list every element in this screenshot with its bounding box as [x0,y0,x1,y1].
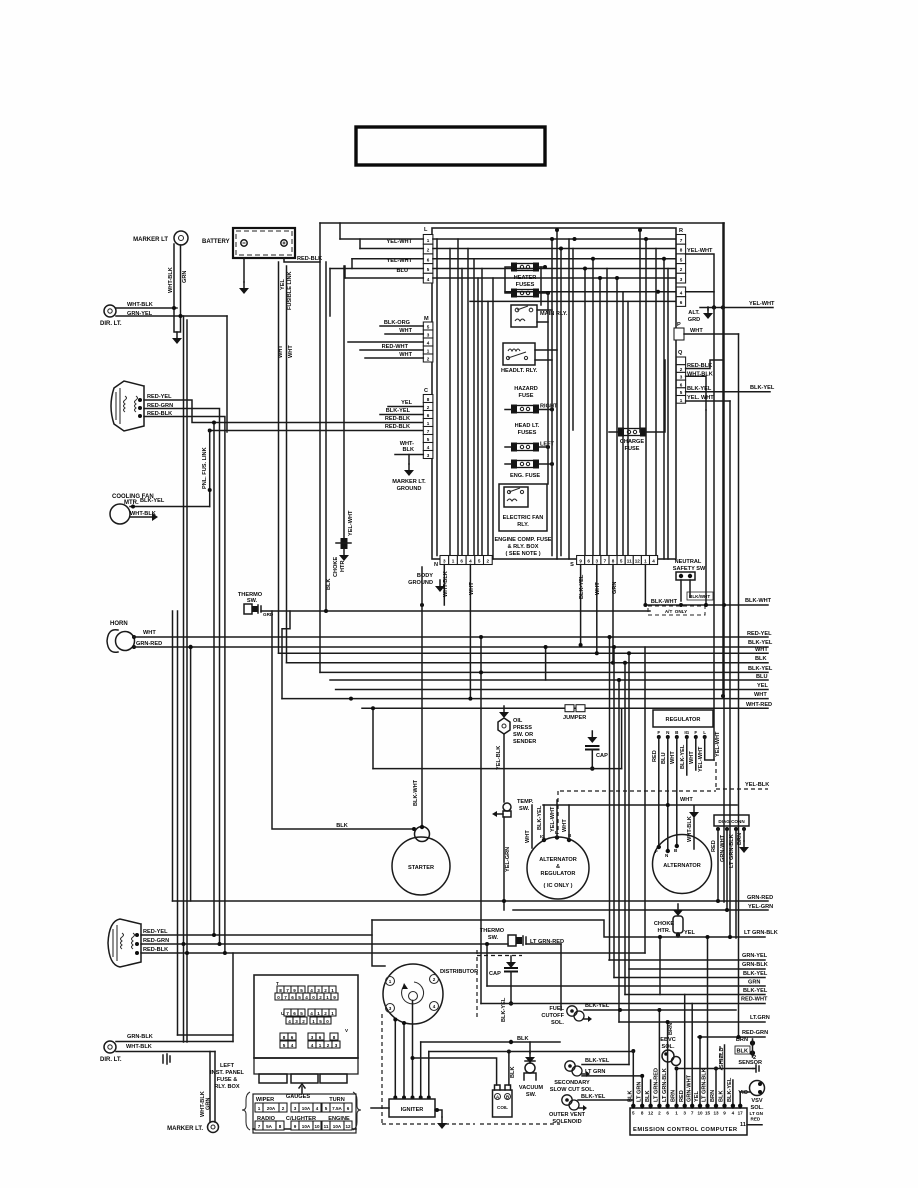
svg-text:( SEE NOTE ): ( SEE NOTE ) [505,551,540,557]
svg-text:BLK: BLK [645,1091,651,1103]
svg-text:YEL: YEL [757,683,768,689]
svg-text:13: 13 [713,1111,719,1116]
svg-text:SW.: SW. [247,598,258,604]
svg-text:20A: 20A [267,1106,276,1111]
svg-text:1: 1 [326,995,329,1000]
svg-text:BLU: BLU [661,753,667,765]
svg-text:& RLY. BOX: & RLY. BOX [508,544,539,550]
svg-text:WHT: WHT [469,582,475,595]
svg-text:11: 11 [740,1122,746,1128]
svg-text:2: 2 [302,1019,305,1024]
svg-text:5: 5 [300,1011,303,1016]
svg-text:GRN: GRN [206,1098,212,1110]
svg-text:YEL-BLK: YEL-BLK [496,746,502,770]
svg-text:RLY. BOX: RLY. BOX [214,1084,240,1090]
svg-text:WHT-BLK: WHT-BLK [127,302,153,308]
svg-text:BLK-YEL: BLK-YEL [748,666,773,672]
svg-text:2: 2 [680,267,683,272]
svg-text:2: 2 [324,988,327,993]
svg-text:WHT: WHT [399,328,412,334]
svg-text:7: 7 [286,1011,289,1016]
svg-text:GRN-RED: GRN-RED [747,895,773,901]
svg-text:BLK/WHT: BLK/WHT [689,594,710,599]
svg-text:4: 4 [310,988,313,993]
svg-text:5: 5 [319,1019,322,1024]
svg-text:1: 1 [427,238,430,243]
svg-text:8: 8 [641,1111,644,1116]
svg-text:BLK-ORG: BLK-ORG [384,320,410,326]
svg-text:P: P [677,322,681,328]
svg-text:3: 3 [311,1035,314,1040]
svg-text:WHT: WHT [670,751,676,764]
svg-text:YEL-WHT: YEL-WHT [698,746,704,772]
svg-text:12: 12 [648,1111,654,1116]
svg-text:A/T ONLY: A/T ONLY [665,609,687,614]
svg-text:NEUTRAL: NEUTRAL [675,559,702,565]
svg-text:8: 8 [279,1124,282,1129]
svg-text:3: 3 [295,1019,298,1024]
svg-text:WHT-BLK: WHT-BLK [126,1044,152,1050]
svg-text:FUSE: FUSE [625,446,640,452]
svg-text:9: 9 [294,1124,297,1129]
svg-text:VACUUM: VACUUM [519,1085,543,1091]
svg-text:YEL-WHT: YEL-WHT [550,806,556,832]
svg-text:1: 1 [644,559,647,564]
svg-text:YEL-WHT: YEL-WHT [348,510,354,536]
svg-text:GROUND: GROUND [397,486,422,492]
svg-text:1: 1 [427,421,430,426]
svg-text:WHT: WHT [562,819,568,832]
svg-text:12: 12 [345,1124,351,1129]
svg-text:6: 6 [666,1111,669,1116]
svg-text:ENG. FUSE: ENG. FUSE [510,473,540,479]
svg-text:RED-BLK: RED-BLK [143,947,168,953]
svg-text:PNL. FUS. LINK: PNL. FUS. LINK [202,447,208,489]
svg-text:GRN-YEL: GRN-YEL [127,311,153,317]
svg-text:1: 1 [389,979,392,984]
svg-text:WHT: WHT [689,751,695,764]
svg-text:SOL.: SOL. [551,1020,564,1026]
svg-text:RED-YEL: RED-YEL [143,929,168,935]
svg-text:BLK: BLK [336,823,348,829]
svg-text:8: 8 [680,248,683,253]
svg-text:LT GRN-BLK: LT GRN-BLK [744,930,778,936]
svg-text:3: 3 [389,1006,392,1011]
svg-text:2: 2 [427,357,430,362]
svg-text:5: 5 [680,390,683,395]
svg-text:2: 2 [324,1011,327,1016]
svg-text:6: 6 [460,559,463,564]
svg-text:HAZARD: HAZARD [514,386,538,392]
svg-text:BLK-YEL: BLK-YEL [727,1077,733,1102]
svg-text:5: 5 [478,559,481,564]
svg-text:2: 2 [680,367,683,372]
svg-text:S: S [570,562,574,568]
svg-text:BLK-YEL: BLK-YEL [680,744,686,769]
svg-text:YEL-WHT: YEL-WHT [387,239,413,245]
svg-text:FUSES: FUSES [516,282,535,288]
svg-text:SW.: SW. [526,1092,537,1098]
svg-text:( IC ONLY ): ( IC ONLY ) [544,883,573,889]
svg-text:WHT-BLK: WHT-BLK [687,816,693,842]
svg-text:WHT-BLK: WHT-BLK [168,267,174,293]
svg-text:3: 3 [443,559,446,564]
svg-text:8: 8 [427,397,430,402]
svg-text:Q: Q [678,350,683,356]
svg-text:3: 3 [335,1043,338,1048]
svg-text:LT GRN-RED: LT GRN-RED [654,1068,660,1102]
svg-text:WHT: WHT [690,328,703,334]
svg-text:SW. OR: SW. OR [513,732,533,738]
svg-text:4: 4 [311,1043,314,1048]
svg-text:7: 7 [284,995,287,1000]
svg-text:WHT: WHT [525,830,531,843]
svg-text:GRN-YEL: GRN-YEL [742,953,768,959]
svg-text:BRN: BRN [710,1090,716,1102]
svg-text:MTR.: MTR. [124,500,139,506]
svg-text:YEL-GRN: YEL-GRN [505,847,511,872]
svg-text:GRN-BLK: GRN-BLK [127,1034,153,1040]
svg-text:10A: 10A [302,1106,311,1111]
svg-text:7: 7 [691,1111,694,1116]
svg-text:LT GRN-BLK: LT GRN-BLK [729,834,735,868]
svg-text:3: 3 [294,1106,297,1111]
svg-text:FUEL: FUEL [549,1006,564,1012]
svg-text:10A: 10A [302,1124,311,1129]
svg-text:JUMPER: JUMPER [563,715,586,721]
svg-text:GRN-WHT: GRN-WHT [686,1074,692,1102]
svg-text:ELECTRIC FAN: ELECTRIC FAN [503,515,544,521]
svg-text:6: 6 [291,1035,294,1040]
svg-text:3: 3 [427,453,430,458]
svg-text:BLK-YEL: BLK-YEL [743,988,768,994]
svg-text:MARKER LT.: MARKER LT. [392,479,426,485]
svg-text:RED: RED [751,1117,761,1122]
svg-text:LT GRN: LT GRN [585,1069,605,1075]
svg-text:LT GRN-BLK: LT GRN-BLK [702,1068,708,1102]
svg-text:F: F [657,730,660,735]
svg-text:10: 10 [314,1124,320,1129]
svg-text:6: 6 [427,257,430,262]
svg-text:3: 3 [680,375,683,380]
svg-text:DIAG CONN: DIAG CONN [718,819,745,824]
svg-text:5: 5 [632,1111,635,1116]
svg-text:ENGINE COMP. FUSE: ENGINE COMP. FUSE [494,537,551,543]
svg-text:VSV: VSV [751,1098,762,1104]
svg-text:6: 6 [680,382,683,387]
svg-text:RED: RED [652,750,658,762]
svg-text:11: 11 [324,1124,329,1129]
svg-text:FUSE &: FUSE & [217,1077,238,1083]
svg-text:6: 6 [319,1035,322,1040]
svg-text:YEL: YEL [401,400,412,406]
svg-text:15: 15 [705,1111,711,1116]
svg-text:2: 2 [427,248,430,253]
svg-text:9: 9 [579,559,582,564]
svg-text:5: 5 [427,437,430,442]
svg-text:SENSOR: SENSOR [738,1060,762,1066]
svg-text:DISTRIBUTOR: DISTRIBUTOR [440,969,478,975]
svg-text:BLK-WHT: BLK-WHT [651,599,678,605]
svg-text:6: 6 [427,413,430,418]
svg-text:RED: RED [711,840,717,852]
svg-text:BRN: BRN [668,1023,674,1035]
svg-text:SAFETY SW: SAFETY SW [673,566,706,572]
svg-text:F: F [655,849,658,854]
svg-text:RLY.: RLY. [517,522,529,528]
svg-text:L: L [703,730,706,735]
svg-text:BLK-YEL: BLK-YEL [140,498,165,504]
svg-text:WHT-BLK: WHT-BLK [130,511,156,517]
svg-text:HEATER: HEATER [514,275,537,281]
svg-text:10A: 10A [333,1124,342,1129]
svg-text:2: 2 [327,1043,330,1048]
svg-text:3: 3 [683,1111,686,1116]
svg-text:BLK-YEL: BLK-YEL [750,385,775,391]
svg-text:RED: RED [679,1090,685,1102]
svg-text:DIR. LT.: DIR. LT. [100,1057,122,1063]
svg-text:0: 0 [277,995,280,1000]
svg-text:WHT: WHT [595,582,601,595]
svg-text:1: 1 [317,1011,320,1016]
svg-text:8: 8 [612,559,615,564]
svg-text:THERMO: THERMO [480,928,505,934]
svg-text:SW.: SW. [488,935,499,941]
svg-text:RIGHT: RIGHT [540,404,558,410]
svg-text:BLK-YEL: BLK-YEL [748,640,773,646]
svg-text:9: 9 [293,988,296,993]
svg-text:IG: IG [684,730,689,735]
svg-text:GAUGES: GAUGES [286,1094,311,1100]
svg-text:11: 11 [627,559,632,564]
svg-text:2: 2 [319,995,322,1000]
svg-text:RED-BLK: RED-BLK [297,256,322,262]
svg-text:1: 1 [680,398,683,403]
svg-text:BLK-WHT: BLK-WHT [413,779,419,806]
svg-text:GROUND: GROUND [408,580,433,586]
svg-text:12: 12 [635,559,641,564]
svg-text:8: 8 [283,1035,286,1040]
svg-text:GRN: GRN [182,271,188,283]
svg-text:BLK-YEL: BLK-YEL [501,997,507,1022]
svg-text:SENDER: SENDER [513,739,536,745]
svg-text:4: 4 [305,995,308,1000]
svg-text:6: 6 [291,995,294,1000]
svg-text:BLK: BLK [326,579,332,591]
svg-text:MARKER LT.: MARKER LT. [167,1126,203,1132]
svg-text:BLK: BLK [755,656,767,662]
svg-text:HORN: HORN [110,621,128,627]
svg-text:MAIN RLY.: MAIN RLY. [540,311,568,317]
svg-text:GRN-BLK: GRN-BLK [742,962,768,968]
svg-text:5: 5 [427,267,430,272]
svg-text:RED-BLK: RED-BLK [385,424,410,430]
svg-text:BATTERY: BATTERY [202,239,230,245]
svg-text:BLU: BLU [397,268,409,274]
svg-text:5: 5 [325,1106,328,1111]
svg-text:&: & [556,864,560,870]
svg-text:17: 17 [738,1111,744,1116]
svg-text:5: 5 [427,325,430,330]
svg-text:3: 3 [596,559,599,564]
svg-text:7: 7 [680,238,683,243]
svg-text:SOLENOID: SOLENOID [552,1119,581,1125]
svg-text:WHT-RED: WHT-RED [746,702,772,708]
svg-text:8: 8 [279,988,282,993]
svg-text:LT.GRN: LT.GRN [750,1015,770,1021]
svg-text:7: 7 [427,429,430,434]
svg-text:M: M [424,316,429,322]
svg-text:5: 5 [680,257,683,262]
svg-text:WHT: WHT [143,630,156,636]
svg-text:BRN: BRN [671,1090,677,1102]
svg-text:1: 1 [319,1043,322,1048]
svg-text:RED-WHT: RED-WHT [382,344,409,350]
svg-text:WHT-BLK: WHT-BLK [443,571,449,597]
svg-text:WIPER: WIPER [256,1097,274,1103]
svg-text:6: 6 [680,300,683,305]
svg-text:4: 4 [288,1019,291,1024]
svg-text:BLK-YEL: BLK-YEL [581,1094,606,1100]
svg-text:10: 10 [697,1111,703,1116]
svg-text:2: 2 [487,559,490,564]
svg-text:LT GN: LT GN [750,1111,764,1116]
svg-text:4: 4 [732,1111,735,1116]
svg-text:RED-WHT: RED-WHT [741,997,768,1003]
svg-text:BRN: BRN [736,1037,748,1043]
svg-text:R: R [679,228,683,234]
svg-text:BLK-YEL: BLK-YEL [579,574,585,599]
svg-text:BLK-YEL: BLK-YEL [386,408,411,414]
svg-text:2: 2 [658,1111,661,1116]
svg-text:OUTER VENT: OUTER VENT [549,1112,586,1118]
svg-text:GRN-RED: GRN-RED [136,641,162,647]
svg-text:YEL-WHT: YEL-WHT [749,301,775,307]
svg-text:0: 0 [312,995,315,1000]
svg-text:STARTER: STARTER [408,865,434,871]
svg-text:HEAD LT.: HEAD LT. [515,423,540,429]
svg-text:RED-YEL: RED-YEL [747,631,772,637]
svg-text:4: 4 [433,1004,436,1009]
svg-text:BODY: BODY [417,573,433,579]
svg-text:5: 5 [298,995,301,1000]
svg-text:7: 7 [258,1124,261,1129]
svg-text:RED-GRN: RED-GRN [143,938,169,944]
svg-text:WHT: WHT [754,692,767,698]
svg-text:BLK-YEL: BLK-YEL [585,1003,610,1009]
svg-text:1: 1 [312,1019,315,1024]
svg-text:0: 0 [326,1019,329,1024]
svg-text:BRN: BRN [737,833,743,845]
svg-text:LEFT: LEFT [220,1063,235,1069]
svg-text:4: 4 [652,559,655,564]
svg-text:TURN: TURN [329,1097,345,1103]
svg-text:BLK-YEL: BLK-YEL [585,1058,610,1064]
svg-text:2: 2 [282,1106,285,1111]
svg-text:INST. PANEL: INST. PANEL [210,1070,244,1076]
svg-text:FUSES: FUSES [518,430,537,436]
svg-text:YEL-WHT: YEL-WHT [687,248,713,254]
svg-text:BLK-YEL: BLK-YEL [537,805,543,830]
svg-text:7: 7 [286,988,289,993]
svg-text:HTR.: HTR. [657,928,670,934]
svg-text:BLK: BLK [719,1091,725,1103]
svg-text:YEL: YEL [280,279,286,290]
svg-text:DIR. LT.: DIR. LT. [100,321,122,327]
svg-text:1: 1 [331,1011,334,1016]
svg-text:L: L [424,227,428,233]
svg-text:5: 5 [620,559,623,564]
svg-text:HTR: HTR [340,561,346,573]
svg-text:9: 9 [333,995,336,1000]
svg-text:4: 4 [316,1106,319,1111]
svg-text:5A: 5A [266,1124,273,1129]
svg-text:IGNITER: IGNITER [401,1107,424,1113]
svg-text:WHT: WHT [399,352,412,358]
svg-text:PRESS: PRESS [513,725,532,731]
svg-text:T: T [276,981,279,986]
svg-text:1: 1 [258,1106,261,1111]
svg-text:YEL: YEL [694,1091,700,1102]
svg-text:6: 6 [587,559,590,564]
svg-text:CHOKE: CHOKE [333,557,339,577]
svg-text:BLK-WHT: BLK-WHT [745,598,772,604]
svg-text:COIL: COIL [497,1105,508,1110]
svg-text:C: C [424,388,428,394]
svg-text:WHT: WHT [755,647,768,653]
svg-text:BLK: BLK [517,1036,529,1042]
svg-text:MARKER LT: MARKER LT [133,237,168,243]
svg-text:5: 5 [300,988,303,993]
svg-text:RED-YEL: RED-YEL [147,394,172,400]
svg-text:BLK-YEL: BLK-YEL [743,971,768,977]
svg-text:6: 6 [293,1011,296,1016]
svg-text:LT GRN: LT GRN [636,1082,642,1102]
svg-text:4: 4 [291,1043,294,1048]
svg-text:CAP: CAP [596,753,608,759]
svg-text:ALT.: ALT. [688,310,700,316]
svg-text:REGULATOR: REGULATOR [541,871,576,877]
svg-text:RED-GRN: RED-GRN [742,1030,768,1036]
svg-text:1: 1 [675,1111,678,1116]
svg-text:GRN: GRN [748,980,760,986]
svg-text:YEL-GRN: YEL-GRN [748,904,773,910]
svg-text:CHOKE: CHOKE [654,921,674,927]
svg-text:2: 2 [433,977,436,982]
svg-text:REGULATOR: REGULATOR [666,717,701,723]
svg-text:GRD: GRD [688,317,700,323]
svg-text:3: 3 [680,277,683,282]
svg-text:YEL. WHT: YEL. WHT [687,395,714,401]
svg-text:ALTERNATOR: ALTERNATOR [663,863,701,869]
svg-text:2: 2 [427,405,430,410]
svg-text:5: 5 [283,1043,286,1048]
svg-text:CAP: CAP [489,971,501,977]
svg-text:3: 3 [427,333,430,338]
svg-text:HEADLT. RLY.: HEADLT. RLY. [501,368,538,374]
svg-text:WHT: WHT [288,345,294,358]
svg-text:GRN-WHT: GRN-WHT [720,834,726,862]
svg-text:4: 4 [427,445,430,450]
svg-text:YEL: YEL [684,930,695,936]
svg-text:1: 1 [427,349,430,354]
svg-text:6: 6 [347,1106,350,1111]
svg-text:YEL-WHT: YEL-WHT [715,731,721,757]
svg-text:1: 1 [331,988,334,993]
svg-text:RED-BLK: RED-BLK [385,416,410,422]
svg-text:SECONDARY: SECONDARY [554,1080,590,1086]
svg-text:GRN: GRN [612,582,618,594]
